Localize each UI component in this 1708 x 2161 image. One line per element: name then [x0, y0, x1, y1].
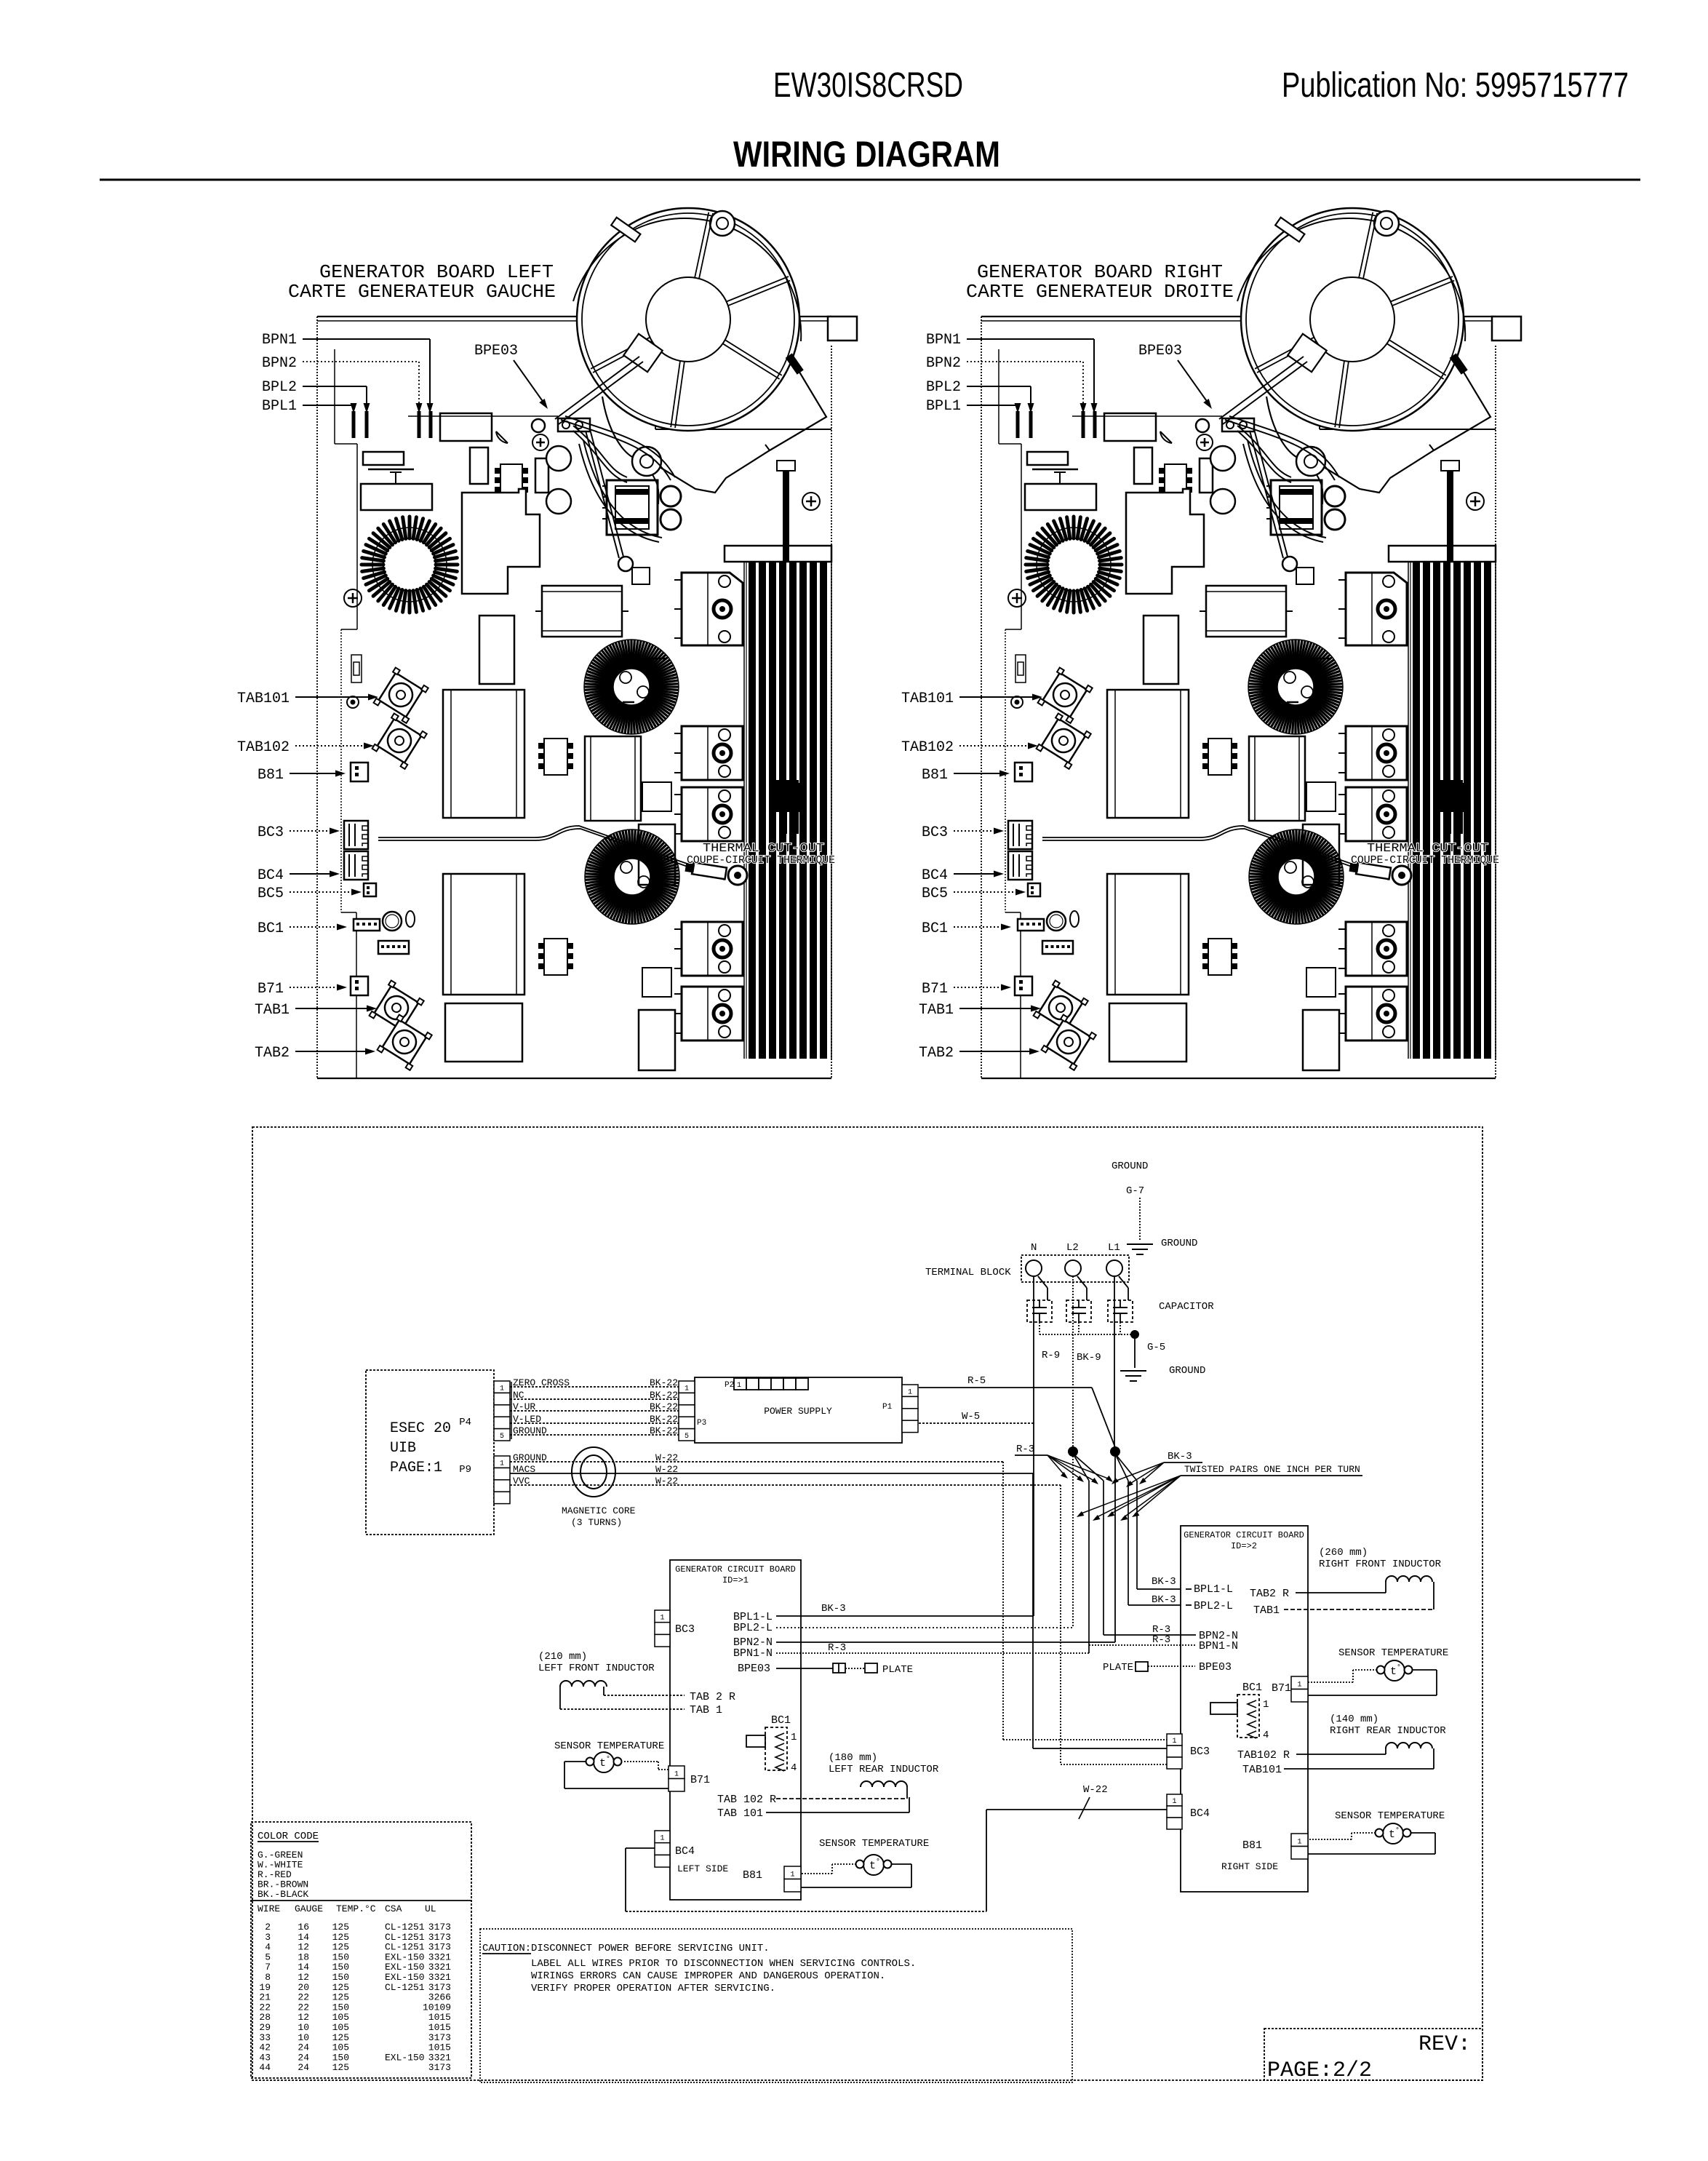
- svg-text:42: 42: [259, 2042, 271, 2053]
- svg-text:BK-22: BK-22: [650, 1401, 678, 1412]
- mid rect D: [443, 690, 524, 818]
- svg-text:CL-1251: CL-1251: [385, 1922, 425, 1933]
- svg-text:5: 5: [265, 1951, 271, 1962]
- svg-text:BPN1-N: BPN1-N: [1199, 1640, 1238, 1652]
- terminal N: [1026, 1260, 1042, 1276]
- svg-text:PLATE: PLATE: [882, 1664, 913, 1676]
- svg-text:GROUND: GROUND: [1112, 1161, 1148, 1172]
- electrolytic capacitors: [546, 446, 571, 471]
- sensor wires to GCB2-B81: [1352, 1832, 1376, 1834]
- svg-text:TAB2: TAB2: [919, 1045, 954, 1062]
- transformer block: [607, 480, 658, 535]
- svg-text:3: 3: [265, 1932, 271, 1943]
- curved trace A: [573, 426, 627, 477]
- svg-text:L2: L2: [1066, 1242, 1079, 1254]
- svg-text:BK-3: BK-3: [1152, 1576, 1176, 1588]
- svg-text:G-5: G-5: [1147, 1342, 1165, 1353]
- wire W-22 VVC down: [1060, 1485, 1061, 1764]
- P4 wire label divider: [511, 1382, 512, 1439]
- svg-text:BPN1: BPN1: [926, 332, 961, 349]
- svg-text:EXL-150: EXL-150: [385, 1972, 425, 1983]
- tall rect: [470, 447, 488, 484]
- mid rect F: [445, 1003, 522, 1062]
- svg-text:R-9: R-9: [1042, 1350, 1060, 1361]
- branch to 1551: [1115, 1454, 1128, 1481]
- svg-text:LEFT REAR INDUCTOR: LEFT REAR INDUCTOR: [829, 1764, 939, 1775]
- svg-text:BC1: BC1: [258, 920, 284, 937]
- heatsink top rail: [725, 546, 831, 562]
- svg-text:1: 1: [1297, 1839, 1301, 1847]
- svg-text:1: 1: [500, 1385, 504, 1393]
- svg-text:EXL-150: EXL-150: [385, 1962, 425, 1973]
- connector 5pin: [378, 941, 409, 954]
- svg-text:V-UR: V-UR: [513, 1401, 535, 1412]
- wire table divider: [251, 1900, 471, 1901]
- svg-text:SENSOR TEMPERATURE: SENSOR TEMPERATURE: [554, 1740, 664, 1752]
- connector B71: [351, 976, 368, 995]
- TO220 package 5: [682, 987, 743, 1040]
- cap rect G: [585, 736, 641, 821]
- svg-text:RIGHT REAR INDUCTOR: RIGHT REAR INDUCTOR: [1330, 1725, 1446, 1737]
- svg-text:29: 29: [259, 2022, 271, 2033]
- svg-text:NC: NC: [513, 1390, 524, 1401]
- GCB2 connector B81: [1291, 1834, 1308, 1847]
- svg-text:3173: 3173: [428, 1982, 451, 1993]
- wire W-22 MACS down: [1032, 1473, 1034, 1748]
- small rect top-left: [363, 452, 404, 465]
- wire L1 down: [1114, 1276, 1115, 1447]
- wire table rows: [259, 1922, 451, 2073]
- generator board right assembly: [981, 208, 1521, 1078]
- wire P4 V-UR: [510, 1410, 679, 1412]
- generator board left assembly: [317, 208, 857, 1078]
- generator circuit board 1 box: [670, 1560, 801, 1900]
- svg-text:R-5: R-5: [967, 1375, 986, 1387]
- svg-text:125: 125: [332, 1922, 349, 1933]
- wire capacitor bus: [1039, 1322, 1040, 1334]
- sensor wires to GCB2-B71: [1353, 1669, 1377, 1671]
- svg-text:BPL2: BPL2: [262, 379, 297, 396]
- svg-text:1015: 1015: [428, 2012, 451, 2023]
- svg-text:R-3: R-3: [1016, 1444, 1034, 1455]
- svg-text:GENERATOR BOARD LEFT: GENERATOR BOARD LEFT: [319, 261, 554, 283]
- small rect above H: [642, 782, 671, 811]
- svg-text:W-22: W-22: [655, 1476, 678, 1487]
- svg-text:P4: P4: [459, 1417, 471, 1428]
- svg-text:TAB102 R: TAB102 R: [1237, 1749, 1290, 1762]
- svg-text:B81: B81: [743, 1869, 762, 1882]
- screw top-left: [344, 589, 362, 607]
- svg-text:t: t: [599, 1757, 606, 1770]
- heatsink fins: [749, 562, 756, 1059]
- svg-text:105: 105: [332, 2042, 349, 2053]
- fan bracket box: [828, 317, 857, 341]
- junction G-5: [1130, 1330, 1139, 1339]
- svg-text:CARTE GENERATEUR DROITE: CARTE GENERATEUR DROITE: [966, 281, 1234, 303]
- svg-text:WIRE: WIRE: [258, 1903, 280, 1914]
- svg-text:1: 1: [737, 1382, 741, 1390]
- capacitor C3: [1108, 1300, 1133, 1322]
- svg-text:19: 19: [259, 1982, 271, 1993]
- svg-text:2: 2: [265, 1922, 271, 1933]
- svg-text:24: 24: [298, 2042, 309, 2053]
- svg-text:24: 24: [298, 2062, 309, 2073]
- svg-text:TAB102: TAB102: [237, 739, 290, 756]
- svg-text:3321: 3321: [428, 2052, 451, 2063]
- svg-text:TAB102: TAB102: [901, 739, 954, 756]
- svg-text:3173: 3173: [428, 1922, 451, 1933]
- vertical rect B: [479, 616, 514, 684]
- svg-text:°: °: [606, 1755, 610, 1764]
- svg-text:10: 10: [298, 2032, 309, 2043]
- svg-text:16: 16: [298, 1922, 309, 1933]
- svg-text:4: 4: [791, 1762, 797, 1774]
- svg-text:ZERO CROSS: ZERO CROSS: [513, 1377, 570, 1388]
- power section divide: [655, 429, 831, 430]
- BPE03 connector: [558, 418, 590, 431]
- svg-text:14: 14: [298, 1932, 309, 1943]
- svg-text:LEFT FRONT INDUCTOR: LEFT FRONT INDUCTOR: [538, 1663, 655, 1674]
- svg-text:105: 105: [332, 2022, 349, 2033]
- svg-text:125: 125: [332, 2062, 349, 2073]
- GCB1 connector B81: [784, 1866, 801, 1879]
- wire P4 GROUND: [510, 1434, 679, 1436]
- svg-text:(210 mm): (210 mm): [538, 1651, 587, 1663]
- svg-text:Publication No: 5995715777: Publication No: 5995715777: [1282, 66, 1629, 105]
- svg-text:3173: 3173: [428, 1942, 451, 1953]
- svg-text:VVC: VVC: [513, 1476, 530, 1487]
- svg-text:BC1: BC1: [1242, 1682, 1262, 1694]
- svg-text:GENERATOR CIRCUIT BOARD: GENERATOR CIRCUIT BOARD: [1184, 1530, 1304, 1540]
- junction L1: [1110, 1446, 1120, 1457]
- svg-text:TAB 102 R: TAB 102 R: [717, 1794, 776, 1806]
- GCB2 connector B71: [1291, 1676, 1308, 1690]
- connector B81: [351, 763, 368, 781]
- TO220 package 3: [682, 787, 743, 841]
- svg-text:44: 44: [259, 2062, 271, 2073]
- svg-text:14: 14: [298, 1962, 309, 1973]
- wire R-5: [919, 1387, 1092, 1388]
- sensor GCB1-B81: [863, 1855, 884, 1875]
- wire P4 ZERO CROSS: [510, 1386, 679, 1388]
- svg-text:P2: P2: [725, 1381, 734, 1390]
- small oval: [406, 911, 415, 927]
- capacitor C1: [1027, 1300, 1052, 1322]
- pad grid C: [544, 939, 567, 975]
- svg-text:(140 mm): (140 mm): [1330, 1714, 1378, 1725]
- svg-text:ESEC 20: ESEC 20: [390, 1420, 451, 1437]
- svg-text:BK-3: BK-3: [1168, 1451, 1192, 1462]
- terminal L1: [1106, 1260, 1122, 1276]
- svg-text:BK-22: BK-22: [650, 1377, 678, 1388]
- sensor GCB2-B71: [1384, 1660, 1405, 1681]
- magnetic core: [572, 1447, 615, 1497]
- svg-text:t: t: [869, 1860, 876, 1872]
- svg-text:BK-3: BK-3: [1152, 1594, 1176, 1606]
- board outline: [317, 316, 831, 317]
- svg-text:3173: 3173: [428, 2062, 451, 2073]
- board pins BPL1 BPL2: [352, 411, 356, 438]
- branch to 1497: [1073, 1454, 1089, 1481]
- svg-text:1: 1: [660, 1835, 664, 1843]
- svg-text:SENSOR TEMPERATURE: SENSOR TEMPERATURE: [1338, 1647, 1448, 1659]
- wire BC4 loop to GCB2: [626, 1847, 655, 1849]
- branch to 1517: [1073, 1454, 1104, 1481]
- sensor wires to B81: [832, 1863, 856, 1865]
- pad grid component: [500, 464, 522, 493]
- svg-text:SENSOR TEMPERATURE: SENSOR TEMPERATURE: [1335, 1810, 1445, 1822]
- svg-text:TAB1: TAB1: [255, 1002, 290, 1019]
- svg-text:BC5: BC5: [922, 886, 948, 902]
- svg-text:WIRINGS ERRORS CAN CAUSE IMPRO: WIRINGS ERRORS CAN CAUSE IMPROPER AND DA…: [531, 1970, 885, 1982]
- vertical rect: [535, 458, 548, 493]
- svg-text:5: 5: [685, 1433, 689, 1441]
- color code box: [251, 1822, 471, 2078]
- svg-text:150: 150: [332, 1962, 349, 1973]
- thermal cut-out blob: [775, 780, 799, 811]
- board inner edge: [334, 349, 335, 444]
- svg-text:10109: 10109: [423, 2002, 451, 2013]
- svg-text:CAPACITOR: CAPACITOR: [1159, 1301, 1214, 1313]
- sensor GCB1-B71: [594, 1752, 614, 1772]
- svg-text:1: 1: [791, 1732, 797, 1743]
- generator circuit board 2 box: [1181, 1526, 1308, 1892]
- svg-text:CSA: CSA: [385, 1903, 402, 1914]
- svg-text:125: 125: [332, 1932, 349, 1943]
- trace to thermal: [378, 826, 725, 877]
- svg-text:150: 150: [332, 1951, 349, 1962]
- screw small: [347, 696, 359, 708]
- svg-text:TAB 1: TAB 1: [690, 1704, 722, 1716]
- svg-text:t: t: [1389, 1828, 1395, 1841]
- svg-text:BPE03: BPE03: [474, 343, 518, 359]
- svg-text:BPE03: BPE03: [738, 1663, 770, 1675]
- svg-text:(180 mm): (180 mm): [829, 1752, 877, 1764]
- svg-text:BK-3: BK-3: [821, 1603, 846, 1615]
- svg-text:BPL2-L: BPL2-L: [1194, 1600, 1233, 1612]
- svg-text:BPL1-L: BPL1-L: [1194, 1583, 1233, 1596]
- svg-text:CL-1251: CL-1251: [385, 1942, 425, 1953]
- svg-text:BPN1-N: BPN1-N: [733, 1647, 773, 1660]
- rect H: [639, 824, 675, 885]
- pad grid B: [544, 739, 567, 775]
- svg-text:3321: 3321: [428, 1951, 451, 1962]
- sensor wires to B71: [624, 1761, 658, 1762]
- svg-text:CARTE GENERATEUR GAUCHE: CARTE GENERATEUR GAUCHE: [288, 281, 556, 303]
- svg-text:WIRING DIAGRAM: WIRING DIAGRAM: [733, 134, 1000, 175]
- svg-text:BK-22: BK-22: [650, 1425, 678, 1436]
- svg-text:20: 20: [298, 1982, 309, 1993]
- title rule: [100, 179, 1640, 181]
- svg-text:BC4: BC4: [922, 867, 948, 884]
- svg-text:°: °: [1397, 1663, 1401, 1672]
- svg-text:1: 1: [660, 1615, 664, 1623]
- svg-text:GENERATOR CIRCUIT BOARD: GENERATOR CIRCUIT BOARD: [675, 1564, 796, 1575]
- relay TAB1: [370, 980, 424, 1035]
- svg-text:BK.-BLACK: BK.-BLACK: [258, 1889, 308, 1900]
- connector BC5: [364, 883, 376, 896]
- svg-text:W-22: W-22: [655, 1452, 678, 1463]
- svg-text:12: 12: [298, 2012, 309, 2023]
- wire L2 branch down: [1072, 1456, 1074, 1628]
- svg-text:1: 1: [1172, 1798, 1176, 1806]
- svg-text:BPE03: BPE03: [1199, 1661, 1232, 1674]
- svg-text:G-7: G-7: [1126, 1185, 1144, 1197]
- svg-text:10: 10: [298, 2022, 309, 2033]
- svg-text:BPL2: BPL2: [926, 379, 961, 396]
- svg-text:TAB101: TAB101: [237, 691, 290, 707]
- svg-text:PAGE:1: PAGE:1: [390, 1460, 442, 1476]
- svg-text:8: 8: [265, 1972, 271, 1983]
- svg-text:BC4: BC4: [675, 1845, 695, 1858]
- svg-text:MAGNETIC CORE: MAGNETIC CORE: [562, 1505, 636, 1516]
- wire P9 GROUND: [510, 1461, 1003, 1462]
- wire N down: [1033, 1276, 1034, 1423]
- svg-text:B71: B71: [690, 1774, 710, 1786]
- svg-text:TAB1: TAB1: [1253, 1604, 1280, 1617]
- svg-text:V-LED: V-LED: [513, 1414, 541, 1425]
- relay big white polygon: [462, 489, 540, 594]
- GCB2 connector BC4: [1167, 1794, 1182, 1806]
- wire G-7 to ground: [1139, 1198, 1141, 1241]
- wire L1 branch down: [1114, 1456, 1116, 1642]
- svg-text:W-22: W-22: [655, 1464, 678, 1475]
- mid rect E: [443, 874, 524, 995]
- wire TAB 2 R: [603, 1687, 604, 1695]
- right front inductor coil: [1386, 1576, 1432, 1582]
- svg-text:B71: B71: [258, 981, 284, 998]
- capacitor round: [383, 912, 402, 931]
- svg-text:105: 105: [332, 2012, 349, 2023]
- svg-text:N: N: [1031, 1242, 1037, 1254]
- svg-text:TWISTED PAIRS ONE INCH PER TUR: TWISTED PAIRS ONE INCH PER TURN: [1184, 1464, 1360, 1475]
- thermal cut-out blob: [1440, 780, 1463, 811]
- svg-text:B71: B71: [922, 981, 948, 998]
- svg-text:R-3: R-3: [1152, 1634, 1170, 1646]
- svg-text:BK-9: BK-9: [1077, 1352, 1101, 1364]
- svg-text:(260 mm): (260 mm): [1319, 1547, 1368, 1559]
- svg-text:BK-22: BK-22: [650, 1390, 678, 1401]
- svg-text:B71: B71: [1272, 1682, 1291, 1695]
- svg-text:P1: P1: [882, 1403, 893, 1412]
- svg-text:PAGE:2/2: PAGE:2/2: [1267, 2058, 1372, 2083]
- svg-text:GROUND: GROUND: [513, 1425, 547, 1436]
- svg-text:21: 21: [259, 1992, 271, 2003]
- svg-text:GENERATOR BOARD RIGHT: GENERATOR BOARD RIGHT: [977, 261, 1223, 283]
- svg-text:B81: B81: [258, 767, 284, 784]
- schematic border: [252, 1127, 1482, 2080]
- svg-text:125: 125: [332, 1982, 349, 1993]
- power supply box: [695, 1377, 902, 1443]
- relay TAB101: [374, 667, 428, 723]
- svg-text:43: 43: [259, 2052, 271, 2063]
- svg-text:1: 1: [908, 1388, 912, 1396]
- svg-text:3321: 3321: [428, 1972, 451, 1983]
- svg-text:BC3: BC3: [258, 824, 284, 841]
- svg-text:BPL1: BPL1: [262, 398, 297, 415]
- svg-text:GAUGE: GAUGE: [295, 1903, 323, 1914]
- svg-text:(3 TURNS): (3 TURNS): [571, 1517, 622, 1528]
- svg-text:GROUND: GROUND: [1169, 1365, 1205, 1377]
- svg-text:t: t: [1390, 1665, 1397, 1678]
- capacitor C2: [1066, 1300, 1091, 1322]
- ground symbol G-5: [1120, 1370, 1146, 1372]
- svg-text:BC4: BC4: [258, 867, 284, 884]
- svg-text:125: 125: [332, 1992, 349, 2003]
- right board labels: [901, 332, 1212, 1062]
- capacitor circles right: [661, 486, 681, 506]
- svg-text:B81: B81: [1242, 1839, 1262, 1852]
- svg-text:TAB 101: TAB 101: [717, 1807, 763, 1820]
- section line top: [408, 415, 558, 417]
- svg-text:150: 150: [332, 1972, 349, 1983]
- svg-text:UIB: UIB: [390, 1440, 416, 1457]
- svg-text:1: 1: [674, 1771, 679, 1779]
- film capacitor: [542, 586, 622, 637]
- svg-text:3173: 3173: [428, 2032, 451, 2043]
- svg-text:12: 12: [298, 1972, 309, 1983]
- svg-text:BC3: BC3: [922, 824, 948, 841]
- fan assembly: [555, 208, 826, 542]
- wire G-5 down: [1134, 1339, 1136, 1368]
- svg-text:1: 1: [1297, 1682, 1301, 1690]
- svg-text:EXL-150: EXL-150: [385, 2052, 425, 2063]
- svg-text:VERIFY PROPER OPERATION AFTER: VERIFY PROPER OPERATION AFTER SERVICING.: [531, 1983, 775, 1994]
- wire terminal to capacitors: [1038, 1276, 1047, 1288]
- svg-text:EW30IS8CRSD: EW30IS8CRSD: [773, 66, 963, 105]
- right rear inductor coil: [1386, 1743, 1432, 1748]
- svg-text:150: 150: [332, 2052, 349, 2063]
- svg-text:5: 5: [500, 1433, 504, 1441]
- svg-text:REV:: REV:: [1418, 2032, 1471, 2057]
- svg-text:BC1: BC1: [922, 920, 948, 937]
- svg-text:BC1: BC1: [771, 1714, 791, 1727]
- small marks: [496, 431, 508, 443]
- rect capacitor top-left: [361, 484, 432, 510]
- left board labels: [237, 332, 548, 1062]
- wire P9 VVC: [510, 1484, 1061, 1486]
- svg-text:COUPE-CIRCUIT THERMIQUE: COUPE-CIRCUIT THERMIQUE: [1351, 854, 1499, 867]
- svg-text:BC3: BC3: [675, 1623, 695, 1636]
- svg-text:ID=>2: ID=>2: [1231, 1541, 1257, 1551]
- svg-text:12: 12: [298, 1942, 309, 1953]
- connector BC3: [344, 821, 368, 849]
- svg-text:1: 1: [1172, 1738, 1176, 1746]
- svg-text:CL-1251: CL-1251: [385, 1932, 425, 1943]
- small rect above H2: [642, 968, 671, 997]
- svg-text:BC5: BC5: [258, 886, 284, 902]
- terminal L2: [1065, 1260, 1081, 1276]
- svg-text:EXL-150: EXL-150: [385, 1951, 425, 1962]
- left rear inductor coil: [861, 1781, 907, 1787]
- svg-text:TAB1: TAB1: [919, 1002, 954, 1019]
- caution box: [480, 1929, 1072, 2082]
- svg-text:1015: 1015: [428, 2042, 451, 2053]
- GCB2 connector BC3: [1167, 1734, 1182, 1746]
- rev page box: [1264, 2029, 1482, 2080]
- svg-text:22: 22: [259, 2002, 271, 2013]
- svg-text:BC4: BC4: [1190, 1807, 1210, 1820]
- thick black wire top: [783, 471, 789, 562]
- board edge notch connector: [351, 655, 362, 682]
- svg-text:28: 28: [259, 2012, 271, 2023]
- toroid inductor low: [650, 875, 679, 877]
- GCB1 connector BC4: [655, 1831, 670, 1843]
- wire W-22 GROUND down: [1002, 1462, 1004, 1740]
- wire P4 V-LED: [510, 1422, 679, 1424]
- svg-text:BC3: BC3: [1190, 1746, 1210, 1758]
- diagonal trace: [590, 429, 623, 557]
